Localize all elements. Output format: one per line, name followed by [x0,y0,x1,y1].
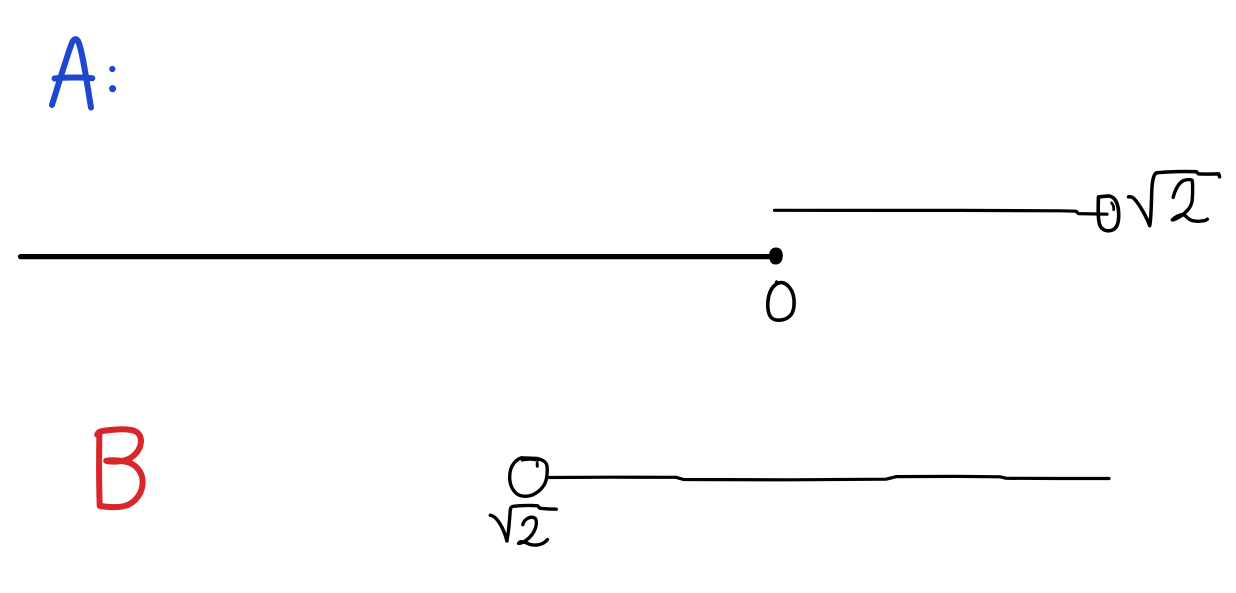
open endpoint 0 at end of ray A [1098,196,1119,231]
radical sign of bottom sqrt(2) [490,505,556,541]
thick closed ray of set A [21,254,777,259]
digit 2 of top sqrt(2) [1172,180,1207,222]
pen nub inside circle top-right [536,463,539,466]
label A (blue handwritten letter) [52,39,92,107]
handwritten 0 below the dot [768,282,794,320]
open ray of set B [549,476,1110,479]
label B (red handwritten letter) [97,429,142,507]
radical sign of top sqrt(2) [1129,172,1220,226]
pen blob at cusp of bottom 2 [517,539,524,545]
open circle endpoint at sqrt(2) for set B [510,458,548,496]
thin open ray of set A [775,210,1108,214]
pen overlap stroke on circle top [522,459,538,460]
inner hook of open endpoint 0 [1112,203,1114,210]
digit 2 of bottom sqrt(2) [519,517,548,545]
colon after A [109,66,116,92]
filled endpoint dot at 0 [770,249,782,264]
